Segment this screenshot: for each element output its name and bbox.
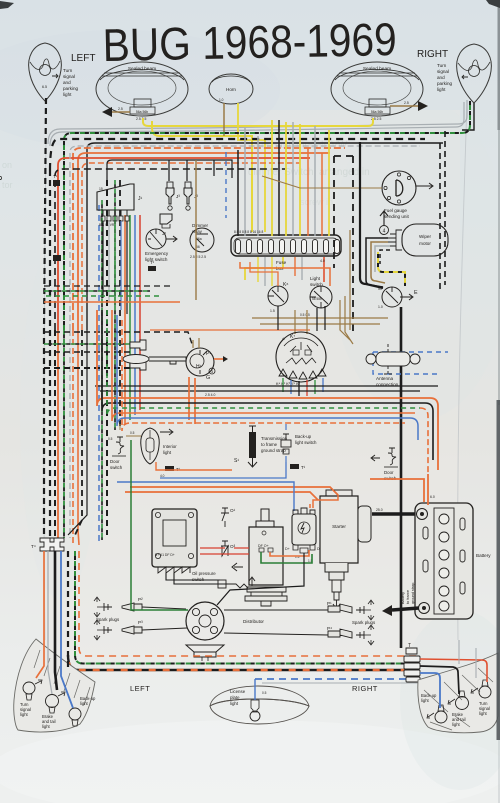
wire: orange run 1 [73,148,345,330]
svg-text:Battery: Battery [476,553,491,558]
svg-text:switch: switch [110,465,123,470]
wire: orange runs into engine area [130,487,338,495]
turn signal switch box J [97,184,143,314]
starter [320,490,371,609]
svg-text:Fuse: Fuse [276,260,287,265]
wire: left bundle green/black 2 [101,200,103,540]
wire: gray run [70,146,420,330]
wire: black bundle from E down [360,142,383,288]
wire: left bundle black solid [68,330,87,535]
left sealed beam headlight [96,62,188,121]
transmission ground strap S1 [234,426,288,467]
svg-text:Sealed beam: Sealed beam [128,66,156,72]
svg-text:Horn: Horn [226,87,236,92]
svg-text:Oil pressure: Oil pressure [192,571,216,576]
svg-text:P²: P² [138,597,143,602]
svg-text:S¹: S¹ [234,458,239,464]
svg-text:56a 56b: 56a 56b [371,110,383,114]
svg-text:LEFT: LEFT [71,53,95,64]
switch O1 [221,508,236,527]
svg-text:Spark plugs: Spark plugs [352,620,376,625]
wire: T1 connector above backup [290,464,299,469]
connector T1 mid [148,260,156,271]
dimmer relay [190,223,214,259]
svg-text:0.5 0.5: 0.5 0.5 [300,313,310,317]
svg-text:1.5: 1.5 [270,309,275,313]
svg-text:ground strap: ground strap [261,448,286,453]
wire: left bundle orange 2 [78,330,79,545]
wire: harness rect black [102,310,425,411]
right turn signal and parking light [457,44,492,103]
warning lamps K1-K5 [276,369,326,386]
wire: blue dashed door circuit [373,352,448,374]
svg-text:relay: relay [192,229,203,234]
svg-text:P⁴: P⁴ [327,626,332,631]
svg-text:2.5: 2.5 [118,107,123,111]
wire: ignition orange drops [188,377,190,420]
svg-text:switch: switch [192,577,205,582]
svg-text:light switch: light switch [145,257,168,262]
wire: left bundle gray dash [69,330,71,538]
wire: fusebox to K6 [250,262,278,286]
svg-text:light: light [42,724,51,729]
svg-text:light: light [20,712,29,717]
svg-text:tor: tor [2,180,13,190]
door switch left [108,437,126,470]
wire: battery orange feed [370,474,428,505]
svg-text:to frame: to frame [261,442,278,447]
svg-text:J¹: J¹ [138,196,143,202]
svg-text:light: light [230,701,239,706]
svg-text:light: light [479,711,488,716]
wire: left bundle orange solid [57,330,59,538]
svg-text:T¹: T¹ [150,260,155,265]
connector plug upper left of ignition [130,340,146,350]
wire: battery ground strap [382,583,419,616]
svg-text:58 58b: 58 58b [312,297,322,301]
distributor [186,602,264,661]
svg-text:Starter: Starter [332,524,346,529]
svg-text:6.0: 6.0 [430,495,435,499]
svg-text:RIGHT: RIGHT [352,684,378,693]
antenna connection [366,344,420,387]
junction block left bundle [53,255,61,261]
svg-text:sending unit: sending unit [384,214,409,219]
svg-text:light: light [80,701,89,706]
svg-text:light switch: light switch [295,440,317,445]
svg-text:plate: plate [230,695,240,700]
svg-text:signal: signal [437,69,449,74]
wire: harness rect orange 2 [112,310,415,421]
wire: fusebox bottom drops [258,257,302,286]
svg-text:H¹: H¹ [196,364,202,370]
wire: harness rect green dash [107,310,420,416]
right brake and tail bulb [448,691,469,727]
wire: black run to switchbox [107,160,232,186]
svg-text:LEFT: LEFT [130,684,150,693]
svg-text:1.0: 1.0 [219,98,224,102]
svg-text:2.5 4.0: 2.5 4.0 [205,393,215,397]
spark plug P1 right [224,600,374,620]
headlight dimmer switch E [378,287,418,309]
wire: coil to distributor [217,553,304,605]
wiper motor [380,211,449,256]
wire: left bundle black/white 3 [54,330,56,538]
svg-text:Back-up: Back-up [295,434,312,439]
svg-text:2.5 2.5: 2.5 2.5 [136,117,146,121]
wire: orange run 3 [82,163,300,330]
scan edge right [498,0,500,130]
wire: door switch leads [120,424,141,436]
left headlight ground arrow (brown) [102,107,130,117]
connector plug lower left of ignition [130,360,146,370]
speedometer harness drops [283,378,323,396]
svg-text:light: light [452,722,461,727]
wire: brown bus under switches [252,318,388,324]
right sealed beam headlight [331,62,423,121]
wire: bottom bundle black/orange dashed [68,655,416,670]
fuel gauge sending unit [0,171,433,219]
fuse box [231,235,341,282]
switch K6 [268,282,288,313]
wire: left bundle blue solid [134,215,136,415]
svg-text:Wiper: Wiper [419,234,431,239]
svg-text:parking: parking [437,81,453,86]
svg-text:to frame: to frame [406,590,410,604]
svg-text:on: on [2,160,12,170]
left back-up bulb [69,696,96,726]
svg-text:motor: motor [419,241,431,246]
right turn signal bulb [471,680,491,716]
svg-text:T¹: T¹ [53,174,58,179]
wire: right gray feeds [459,640,476,678]
switch O2 right [429,506,444,525]
wire: black/white dashed main run [50,139,425,170]
wire: left bundle orange/gray [72,330,74,545]
wire: blue run to coil [117,482,294,511]
svg-text:Emergency: Emergency [145,251,169,256]
wire: left bundle black/white 2 [49,170,51,538]
wire: generator-coil orange U link [270,550,309,556]
svg-text:4: 4 [383,229,386,235]
svg-text:15: 15 [99,187,103,191]
svg-text:2.5: 2.5 [404,101,409,105]
wire: green/black feeds to ignition connectors [44,332,192,368]
horn [209,74,253,104]
wire: gray body outline curve across cowl [48,100,467,144]
back-up light switch [281,424,317,462]
wire: left bundle orange 3 [124,215,126,425]
svg-text:J³: J³ [176,194,180,199]
svg-text:P¹: P¹ [206,351,211,357]
svg-text:Turn: Turn [437,63,447,68]
wire: green/black dashed main run [64,100,470,330]
wire: blue dashed drop to fusebox area [225,152,227,218]
bleed-through ghost text [2,140,370,207]
wire: horn yellow drop [238,103,265,232]
wire: headlight yellow link left-right [143,118,373,126]
wire: black solid run to right [87,143,443,330]
svg-text:8 8 8 8 8 8 8 16 16 8: 8 8 8 8 8 8 8 16 16 8 [234,230,263,234]
wire: left bundle blue/white [98,205,100,545]
svg-text:and: and [63,80,71,85]
right back-up bulb [421,693,447,723]
spark plug P3 left [94,620,187,640]
wire: gray run license [262,682,430,684]
wire: black horizontal at 286 [44,285,170,287]
svg-text:ground strap: ground strap [411,583,415,604]
wiper pull switch J3 right [184,182,198,210]
svg-text:O¹: O¹ [230,508,236,513]
wire: left bundle green/black 3 [114,180,116,430]
svg-text:Light: Light [310,276,321,281]
generator [232,509,287,606]
dashed black rectangle conduit [334,156,353,332]
svg-text:T¹: T¹ [301,465,306,470]
svg-text:Door: Door [384,470,394,475]
spark plug P4 right [224,625,374,645]
svg-text:G: G [206,375,210,381]
svg-text:1.0: 1.0 [378,305,383,309]
voltage regulator [152,509,197,573]
scan corner top-left [0,1,14,9]
svg-text:0.5: 0.5 [262,691,267,695]
wire: tail black thick drop [55,551,57,690]
wire: right black feed [420,666,459,694]
svg-text:P¹: P¹ [327,601,332,606]
wire: tail gray drop [48,551,52,694]
svg-text:light: light [63,92,72,97]
connector T1 left [53,174,60,186]
svg-text:Spark plugs: Spark plugs [96,617,120,622]
svg-text:Interior: Interior [163,444,177,449]
wire: orange run 2 [78,153,330,330]
connector T4 block [31,538,64,551]
svg-text:0.5: 0.5 [108,437,113,441]
wire: black run low [55,169,285,330]
wire: red-orange run [58,158,310,330]
svg-text:License: License [230,689,246,694]
left rear fender outline [14,639,95,732]
svg-text:Distributor: Distributor [243,619,264,624]
spark plug P2 left [94,597,186,617]
wire: orange bus y330 [150,329,310,331]
ignition key [123,355,186,365]
svg-text:Turn: Turn [63,68,73,73]
svg-text:T⁴: T⁴ [31,544,36,549]
battery [415,503,491,619]
connector T1 below interior light [165,466,174,471]
wire: left turn signal black/white striped drop [44,98,46,538]
svg-text:K⁷: K⁷ [290,334,295,340]
left turn signal and parking light [29,43,62,101]
wire: green dash horizontals upper-left [44,291,160,296]
wire: brown vertical at 196 [195,160,197,300]
svg-text:56a 56b: 56a 56b [136,110,148,114]
svg-text:2.5 2.5 2.5: 2.5 2.5 2.5 [190,255,206,259]
svg-text:⊙: ⊙ [282,337,285,341]
svg-text:DF O+: DF O+ [258,544,269,548]
diagram paper tint [40,110,460,670]
scan mottling [0,30,280,150]
light switch [310,276,332,308]
wire: left bundle black/white 6 [119,180,121,430]
wire: orange link under interior light [156,462,232,470]
left turn signal bulb [20,680,42,717]
svg-text:Battery: Battery [401,592,405,604]
wire: tail orange drop [36,551,44,678]
wire: switch drops to speedometer [277,306,279,330]
wire: right red feed [420,659,487,682]
svg-text:switch: switch [310,282,323,287]
wire: left bundle black/white 4 [75,330,82,535]
dash panel frame lines [95,386,438,391]
svg-text:4.0: 4.0 [320,259,325,263]
wire: tail black/white dash drop [67,551,69,670]
wire: left bundle black/white 5 [106,180,108,535]
svg-text:connection: connection [376,382,399,387]
wire: blue dashed right run [255,678,414,680]
wiper motor harness [366,238,390,287]
wire: black dash right vertical [440,131,445,290]
wire: coil orange feeds [310,487,338,508]
wire: left bundle green solid [129,215,131,420]
wire: bottom bundle orange/white dashed [79,551,420,656]
license plate light [210,686,309,724]
generator pulley [245,587,287,606]
svg-text:K⁶: K⁶ [283,282,288,288]
svg-text:0.5: 0.5 [130,431,135,435]
svg-text:E: E [414,290,418,296]
left brake and tail bulb [42,692,65,729]
door switch right [371,448,398,481]
svg-text:screw in: screw in [300,197,333,207]
wire: bottom bundle green/black dashed [75,551,418,664]
speedometer cluster K7 [276,332,326,382]
wire: regulator-generator links [166,573,228,584]
svg-text:P³: P³ [138,620,143,625]
right connectors T [404,643,420,682]
switch O3 [221,541,236,556]
wire: license blue drop [254,679,256,700]
car body outline right side [458,102,467,640]
ignition coil [285,508,323,563]
svg-text:light: light [421,698,430,703]
svg-text:signal: signal [63,74,75,79]
wire: right blue feed [420,673,440,708]
wire: orange horizontal at 302 [44,301,180,303]
switch J5 [160,214,172,236]
right headlight ground arrow (brown) [390,101,428,111]
svg-text:Sealed beam: Sealed beam [363,66,391,72]
wire: left bundle green/black [63,330,65,538]
svg-text:B+ 61 DF D+: B+ 61 DF D+ [155,553,175,557]
wire: brown bundle above ignition [340,296,353,344]
wire: blue right split [410,418,418,440]
svg-text:light: light [437,87,446,92]
wire: fusebox to switches orange [240,262,330,286]
svg-text:Door: Door [110,459,120,464]
wire: starter to battery thick black [372,512,415,515]
fuse box feed drops [238,120,329,236]
svg-text:B S VL VR: B S VL VR [99,223,115,227]
svg-text:Antenna: Antenna [376,376,394,381]
wire: mid horizontal blue to backup switch [160,462,286,478]
svg-text:Fuel gauge: Fuel gauge [384,208,407,213]
svg-text:Dimmer: Dimmer [192,223,209,228]
scan corner top-right [486,0,500,8]
interior light [141,428,177,464]
wire: left headlight yellow to fuse [152,121,252,232]
right rear fender outline [418,653,498,733]
wire: left bundle red [139,215,141,410]
svg-text:25.0: 25.0 [376,508,383,512]
wire: right turn signal black corner [462,103,474,130]
svg-text:6.5: 6.5 [42,85,47,89]
oil pressure switch [192,571,255,588]
wire: green coil feed [131,440,188,610]
wire: harness rect orange outer [97,310,430,406]
svg-text:parking: parking [63,86,79,91]
svg-text:D+: D+ [285,547,290,551]
wire: generator-coil green U link [261,552,312,563]
emergency light switch [145,229,177,262]
svg-text:56a: 56a [196,237,202,241]
wire: right edge verticals to lower [430,398,438,470]
svg-text:RIGHT: RIGHT [417,49,448,60]
svg-text:and: and [437,75,445,80]
wire: tail blue drop [61,551,73,708]
wire: horn brown drop [223,103,225,136]
wire: harness rect orange dash [122,320,405,431]
svg-text:light: light [163,450,172,455]
wire: harness rect blue [117,315,410,426]
ignition starter switch H1 [186,348,228,381]
wiper pull switch J3 left [166,182,180,210]
